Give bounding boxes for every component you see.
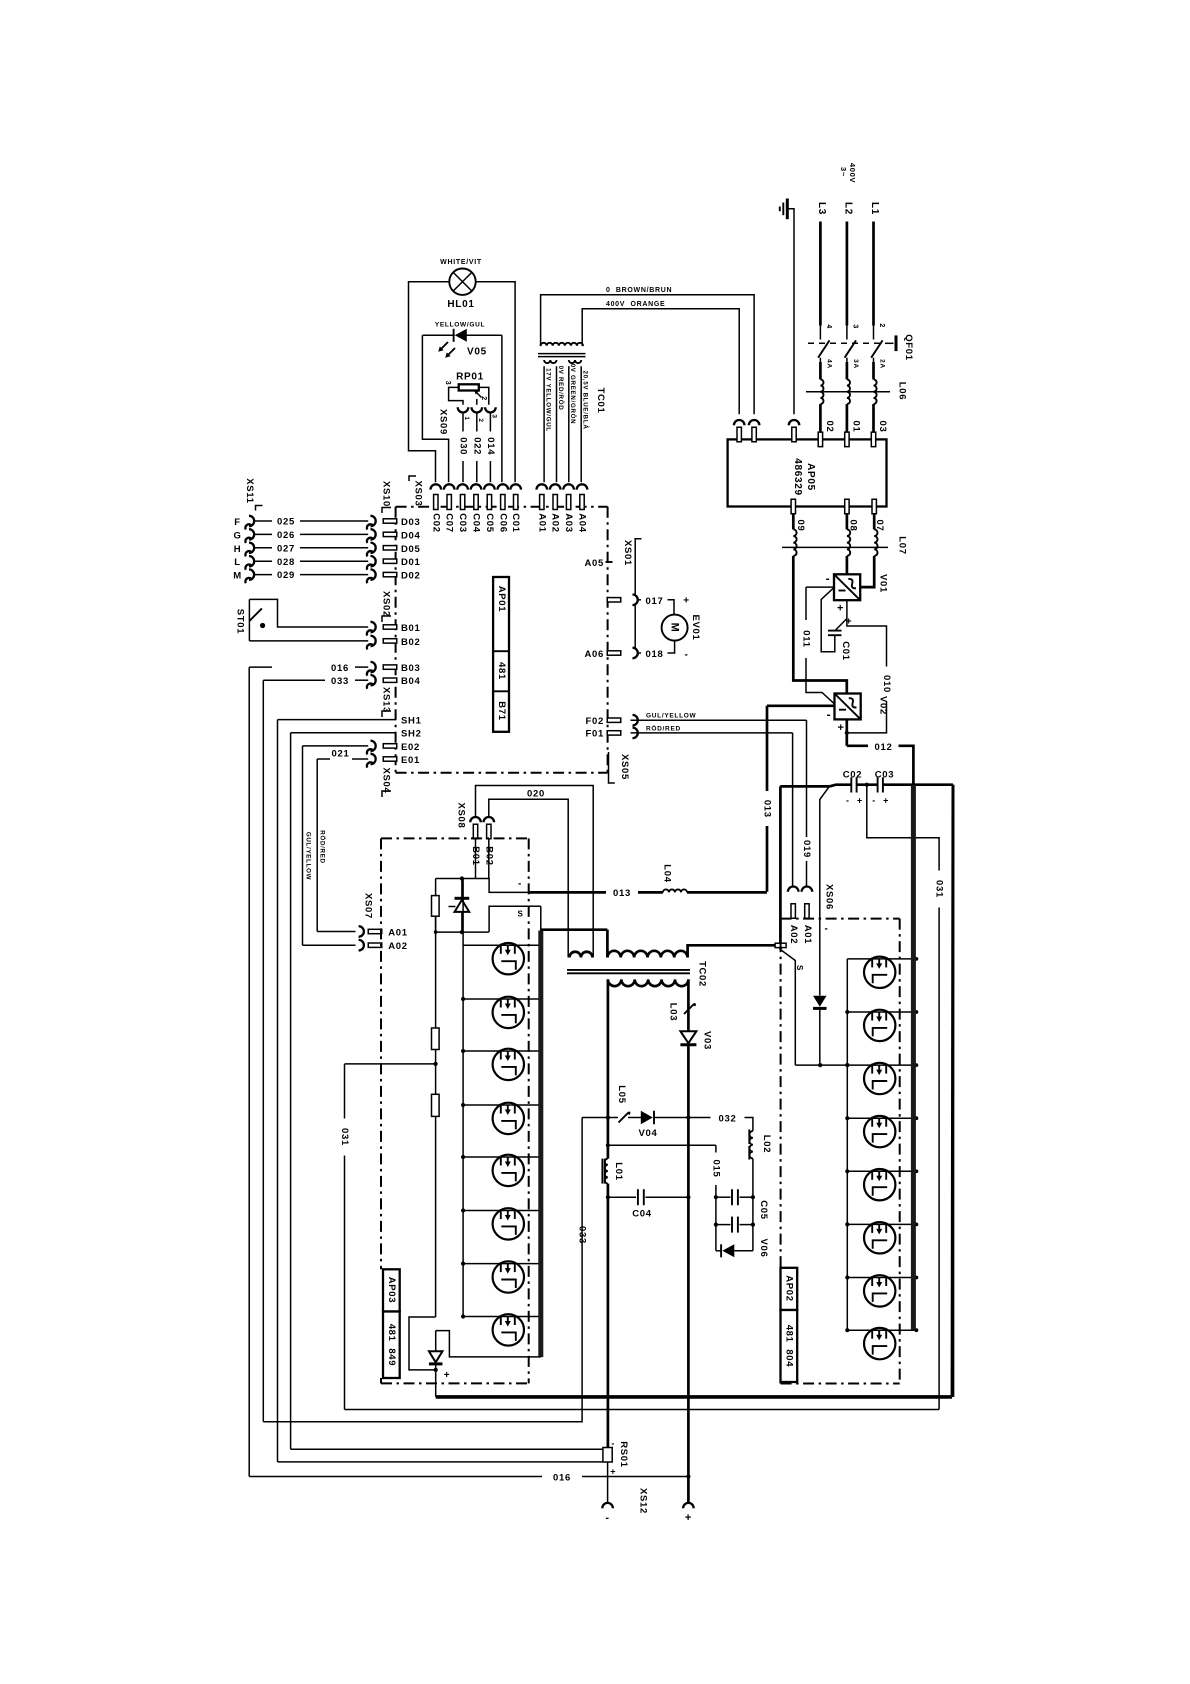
svg-text:RS01: RS01 (618, 1441, 629, 1468)
svg-text:3~: 3~ (839, 167, 848, 177)
svg-text:A06: A06 (584, 649, 604, 660)
svg-text:016: 016 (553, 1472, 571, 1483)
AP02 right bus thick (911, 785, 916, 1330)
wire 015 (608, 1144, 716, 1146)
wire V05 right to C06 (501, 335, 503, 482)
AP02 name plate (781, 1268, 798, 1310)
svg-text:2: 2 (878, 323, 885, 328)
ground PE symbol (786, 199, 789, 220)
svg-text:QF01: QF01 (903, 334, 914, 361)
svg-text:2A: 2A (879, 359, 886, 369)
svg-text:C05: C05 (758, 1200, 769, 1220)
svg-text:GUL/YELLOW: GUL/YELLOW (646, 713, 696, 720)
svg-text:021: 021 (332, 749, 350, 760)
svg-text:AP01: AP01 (496, 586, 507, 613)
diode inside AP02 from minus wire (819, 919, 821, 996)
svg-text:4A: 4A (826, 359, 833, 369)
AP02 rails and buses (846, 959, 848, 1330)
svg-text:C06: C06 (497, 513, 508, 533)
svg-text:015: 015 (710, 1160, 721, 1178)
wire phase 09 to V02 (793, 556, 847, 694)
svg-text:M: M (233, 571, 242, 582)
wire 016 b03 (249, 666, 272, 668)
svg-text:SH1: SH1 (401, 716, 422, 727)
shunt RS01 (603, 1448, 612, 1463)
svg-text:AP02: AP02 (784, 1275, 795, 1302)
svg-text:D05: D05 (401, 544, 421, 555)
wire plus rail V03 L03 (687, 979, 690, 1043)
svg-text:A02: A02 (788, 925, 799, 945)
svg-text:L03: L03 (668, 1003, 679, 1021)
svg-text:EV01: EV01 (690, 614, 701, 640)
svg-text:YELLOW/GUL: YELLOW/GUL (435, 322, 485, 329)
svg-text:L04: L04 (662, 864, 673, 882)
svg-text:D03: D03 (401, 517, 421, 528)
svg-text:-: - (684, 650, 688, 661)
svg-text:03: 03 (877, 421, 888, 433)
svg-text:C07: C07 (444, 513, 455, 533)
diode board AP02 dashed box (781, 919, 900, 1384)
svg-text:4: 4 (825, 324, 832, 329)
svg-text:RÖD/RED: RÖD/RED (318, 830, 325, 863)
svg-text:-: - (824, 924, 828, 935)
wire S to TC02 primary (529, 905, 541, 907)
wire 014 (489, 412, 491, 431)
svg-text:E01: E01 (401, 755, 420, 766)
svg-text:033: 033 (577, 1226, 588, 1244)
svg-text:025: 025 (277, 517, 295, 528)
breaker QF01 (873, 326, 875, 340)
svg-text:XS04: XS04 (380, 767, 391, 793)
svg-text:031: 031 (934, 880, 945, 898)
svg-text:E02: E02 (401, 742, 420, 753)
wire V05 left to C07 (422, 335, 448, 482)
lamp HL01 (449, 269, 475, 295)
pin A02 XS07 (303, 944, 356, 946)
wire 031 bottom (345, 1409, 940, 1411)
AP03 MOSFET rails and bus (462, 879, 464, 1317)
svg-text:-: - (872, 796, 876, 806)
wire F02 to XS06 A01 019 (631, 719, 807, 721)
svg-text:A02: A02 (388, 941, 408, 952)
svg-text:018: 018 (646, 649, 664, 660)
svg-text:B01: B01 (401, 623, 421, 634)
svg-text:RÖD/RED: RÖD/RED (646, 723, 681, 732)
wire 20,5V BLUE/BLA (580, 366, 582, 482)
svg-text:013: 013 (762, 800, 773, 818)
wire 012 capacitor tail right (952, 785, 955, 1397)
svg-text:C05: C05 (484, 513, 495, 533)
svg-text:V01: V01 (878, 574, 889, 593)
svg-text:0V RED/RÖD: 0V RED/RÖD (557, 366, 564, 411)
inductor L01 (601, 1159, 603, 1184)
svg-text:V04: V04 (638, 1128, 657, 1139)
svg-text:-: - (518, 879, 522, 890)
svg-text:17V YELLOW/GUL: 17V YELLOW/GUL (544, 368, 551, 432)
svg-text:V03: V03 (702, 1031, 713, 1050)
RP01 wiper pin2 (475, 391, 482, 398)
power board AP03 dashed box (381, 838, 529, 1383)
pin to wire 017 (607, 598, 621, 602)
wire 031 left (345, 1063, 436, 1065)
svg-text:01: 01 (851, 421, 862, 433)
wire 030 (462, 412, 464, 431)
svg-text:XS06: XS06 (824, 884, 835, 910)
capacitor C01 (828, 630, 842, 632)
svg-text:486329: 486329 (792, 458, 803, 496)
svg-text:022: 022 (471, 437, 482, 455)
svg-text:09: 09 (795, 520, 806, 532)
svg-text:AP05: AP05 (805, 463, 816, 491)
capacitor C04 (608, 1196, 636, 1198)
svg-text:400V: 400V (848, 163, 857, 183)
AP03 name plate (383, 1269, 400, 1311)
svg-text:WHITE/VIT: WHITE/VIT (440, 259, 482, 266)
wire HL01 left to C02 (409, 282, 450, 483)
svg-text:XS02: XS02 (380, 591, 391, 617)
svg-text:+: + (883, 796, 889, 806)
wire SH1 (278, 719, 396, 721)
svg-text:A05: A05 (584, 558, 604, 569)
svg-text:L3: L3 (816, 202, 827, 215)
transformer TC02 secondary (608, 979, 689, 986)
wire 016 bottom (249, 1476, 542, 1478)
rectifier V01 (834, 574, 860, 600)
svg-text:-: - (605, 1512, 609, 1524)
wire minus from capacitor bus into AP02 (820, 786, 830, 918)
wire 033 to V04 row (263, 1118, 582, 1422)
svg-text:TC02: TC02 (697, 961, 708, 987)
svg-text:02: 02 (824, 421, 835, 433)
svg-text:F02: F02 (586, 716, 604, 727)
wire 013 vertical at V02 (767, 704, 835, 707)
svg-text:+: + (610, 1467, 616, 1477)
svg-text:+: + (857, 796, 863, 806)
wire phase 08 to V01 (846, 556, 849, 574)
svg-text:D01: D01 (401, 557, 421, 568)
rectifier V02 (835, 694, 861, 720)
svg-text:L: L (234, 557, 241, 568)
svg-text:C02: C02 (430, 513, 441, 533)
svg-text:-: - (611, 1439, 615, 1449)
wire L2 input (846, 222, 849, 326)
wire E01 ROD/RED 021 (317, 758, 330, 760)
svg-text:+: + (444, 1370, 451, 1381)
svg-text:C02: C02 (843, 770, 863, 781)
svg-text:B03: B03 (401, 663, 421, 674)
svg-text:-: - (827, 708, 832, 722)
svg-text:S: S (517, 910, 523, 919)
svg-text:3: 3 (490, 414, 497, 418)
svg-text:1: 1 (463, 416, 470, 420)
wire HL01 right to C01 (476, 282, 515, 483)
wire S out of AP03 (489, 906, 529, 932)
svg-text:D04: D04 (401, 530, 421, 541)
snubber diode inside AP03 (461, 879, 463, 900)
svg-text:C03: C03 (457, 513, 468, 533)
svg-text:L1: L1 (869, 202, 880, 215)
svg-text:C01: C01 (840, 641, 851, 661)
svg-text:020: 020 (527, 789, 545, 800)
wire plus thick bottom (436, 1395, 952, 1399)
svg-text:S: S (795, 965, 804, 971)
inductor L07 (793, 529, 796, 556)
svg-text:C04: C04 (471, 513, 482, 533)
svg-text:XS08: XS08 (456, 802, 467, 828)
svg-text:017: 017 (646, 596, 664, 607)
svg-text:L02: L02 (761, 1135, 772, 1153)
wire minus to XS12 (607, 1462, 609, 1503)
svg-text:-: - (826, 571, 831, 585)
svg-text:B04: B04 (401, 676, 421, 687)
svg-text:F: F (234, 517, 241, 528)
svg-text:0 BROWN/BRUN: 0 BROWN/BRUN (606, 287, 672, 294)
wire RP01 pin3 to XS09-1 (449, 387, 463, 404)
svg-text:SH2: SH2 (401, 729, 422, 740)
svg-text:400V ORANGE: 400V ORANGE (606, 301, 665, 308)
svg-text:A01: A01 (802, 925, 813, 945)
wire 031 from capacitor midpoint (867, 785, 939, 871)
row8 jog and bottom diode (409, 1317, 436, 1370)
wire 011 (806, 586, 834, 588)
svg-text:+: + (837, 603, 844, 615)
transformer TC02 primary (569, 952, 592, 958)
svg-text:L01: L01 (613, 1162, 624, 1180)
svg-text:2: 2 (477, 418, 484, 422)
snubber bottom rail (435, 916, 437, 932)
svg-text:H: H (234, 544, 242, 555)
svg-text:XS09: XS09 (438, 409, 449, 435)
fan EV01 (668, 600, 675, 615)
wire 033 b04 (263, 679, 325, 681)
svg-text:481 849: 481 849 (386, 1324, 397, 1367)
svg-text:016: 016 (331, 663, 349, 674)
svg-text:3: 3 (852, 324, 859, 329)
wire 022 (476, 412, 478, 431)
svg-text:XS10: XS10 (380, 481, 391, 507)
svg-text:481 804: 481 804 (784, 1325, 795, 1368)
svg-text:2: 2 (480, 396, 487, 401)
svg-text:20,5V BLUE/BLÅ: 20,5V BLUE/BLÅ (582, 371, 589, 430)
wire PE to AP05 (787, 209, 794, 414)
wire 0V RED/ROD (556, 366, 558, 482)
svg-text:G: G (233, 530, 241, 541)
svg-text:012: 012 (875, 742, 893, 753)
svg-text:014: 014 (485, 437, 496, 455)
wire XS08 B02 to TC02 (489, 799, 568, 957)
svg-text:A02: A02 (550, 513, 561, 533)
wire minus out of AP03 (489, 879, 529, 893)
svg-text:GUL/YELLOW: GUL/YELLOW (304, 832, 311, 880)
AP05 bottom pins 09 08 07 (791, 499, 795, 514)
pin A01 XS07 (317, 931, 355, 933)
wire F01 to XS06 A02 (631, 732, 793, 734)
svg-text:V02: V02 (878, 696, 889, 715)
svg-text:V05: V05 (467, 347, 487, 358)
svg-text:+: + (685, 1512, 692, 1524)
svg-text:AP03: AP03 (386, 1277, 397, 1304)
svg-text:0V GREEN/GRÖN: 0V GREEN/GRÖN (569, 364, 576, 425)
svg-text:XS05: XS05 (619, 754, 630, 780)
svg-text:L2: L2 (843, 202, 854, 215)
wire E02 GUL/YELLOW (303, 745, 369, 747)
wire 17V YELLOW/GUL (543, 366, 545, 482)
svg-text:026: 026 (277, 530, 295, 541)
svg-text:029: 029 (277, 570, 295, 581)
wire plus output of AP03 (435, 1370, 437, 1397)
svg-text:RP01: RP01 (456, 372, 484, 383)
wire S into AP02 (779, 786, 782, 949)
wire SH2 to RS01 (291, 1448, 603, 1450)
inductor L05 and diode V04 (582, 1117, 618, 1119)
LED V05 (422, 334, 454, 336)
svg-text:3: 3 (444, 381, 451, 386)
svg-text:C01: C01 (510, 513, 521, 533)
transistors Q1-Q8 AP03 (493, 943, 524, 974)
svg-text:A03: A03 (563, 513, 574, 533)
svg-text:XS07: XS07 (362, 893, 373, 919)
svg-text:3A: 3A (852, 359, 859, 369)
svg-text:010: 010 (881, 675, 892, 693)
diodes D1-D8 AP02 (864, 957, 895, 988)
svg-text:A01: A01 (388, 927, 408, 938)
wire 012 from V02 plus (845, 719, 848, 745)
wire 020 (476, 786, 594, 958)
svg-text:ST01: ST01 (235, 609, 246, 635)
svg-text:M: M (669, 623, 681, 633)
svg-text:+: + (846, 617, 853, 628)
wire SH1 to RS01 (278, 1461, 603, 1463)
svg-text:B02: B02 (401, 637, 421, 648)
svg-text:+: + (837, 722, 844, 734)
svg-text:A01: A01 (536, 513, 547, 533)
svg-text:XS03: XS03 (413, 480, 424, 506)
svg-text:L06: L06 (897, 382, 908, 400)
svg-text:030: 030 (458, 437, 469, 455)
connector pins into AP05 top (734, 420, 745, 425)
svg-text:L05: L05 (616, 1085, 627, 1103)
svg-text:F01: F01 (586, 729, 604, 740)
svg-text:027: 027 (277, 543, 295, 554)
inductor L06 (872, 362, 875, 379)
AP01 left pins (371, 516, 376, 526)
wire 032 and inductor L02 (688, 1117, 710, 1119)
wire SH2 (291, 732, 396, 734)
svg-text:XS11: XS11 (244, 478, 255, 504)
wire minus rail (607, 979, 610, 1158)
svg-text:-: - (846, 796, 850, 806)
AP01 name plate (493, 577, 509, 732)
control board AP01 481 B71 dashed box (396, 507, 608, 773)
svg-text:XS13: XS13 (380, 687, 391, 713)
snubber resistor R inside AP03 (475, 838, 477, 878)
wire 010 (847, 600, 887, 666)
svg-text:TC01: TC01 (595, 387, 606, 413)
svg-text:028: 028 (277, 557, 295, 568)
wire 013 with inductor L04 (529, 891, 606, 894)
svg-text:011: 011 (801, 630, 812, 647)
AP03 source bus thick (538, 931, 543, 1358)
svg-text:033: 033 (331, 676, 349, 687)
filter unit AP05 486329 (728, 439, 887, 506)
svg-text:L07: L07 (897, 536, 908, 554)
svg-text:XS12: XS12 (638, 1488, 649, 1514)
wire L3 input (819, 222, 822, 326)
wire plus to XS12 (687, 1397, 690, 1503)
svg-text:019: 019 (801, 840, 812, 858)
diode V06 (716, 1250, 721, 1252)
wire 0V GREEN/GRON (568, 366, 570, 482)
svg-text:XS01: XS01 (622, 540, 633, 566)
svg-text:C04: C04 (632, 1209, 652, 1220)
svg-text:V06: V06 (758, 1238, 769, 1257)
wire phase 07 to V01 (860, 556, 874, 587)
svg-text:013: 013 (613, 888, 631, 899)
svg-text:031: 031 (339, 1128, 350, 1146)
svg-text:B71: B71 (496, 701, 507, 721)
svg-text:HL01: HL01 (447, 299, 474, 310)
wire RP01 pin1 to XS09-3 (479, 387, 489, 404)
capacitor C05 double (714, 1195, 718, 1199)
svg-text:+: + (683, 596, 690, 607)
transformer TC02 core (567, 969, 690, 971)
svg-text:D02: D02 (401, 571, 421, 582)
wire L1 input (872, 222, 875, 326)
svg-text:032: 032 (719, 1113, 737, 1124)
svg-text:481: 481 (496, 662, 507, 680)
transformer TC01 (541, 343, 583, 346)
resistor chain in AP03 (435, 916, 437, 1028)
svg-text:A04: A04 (577, 513, 588, 533)
